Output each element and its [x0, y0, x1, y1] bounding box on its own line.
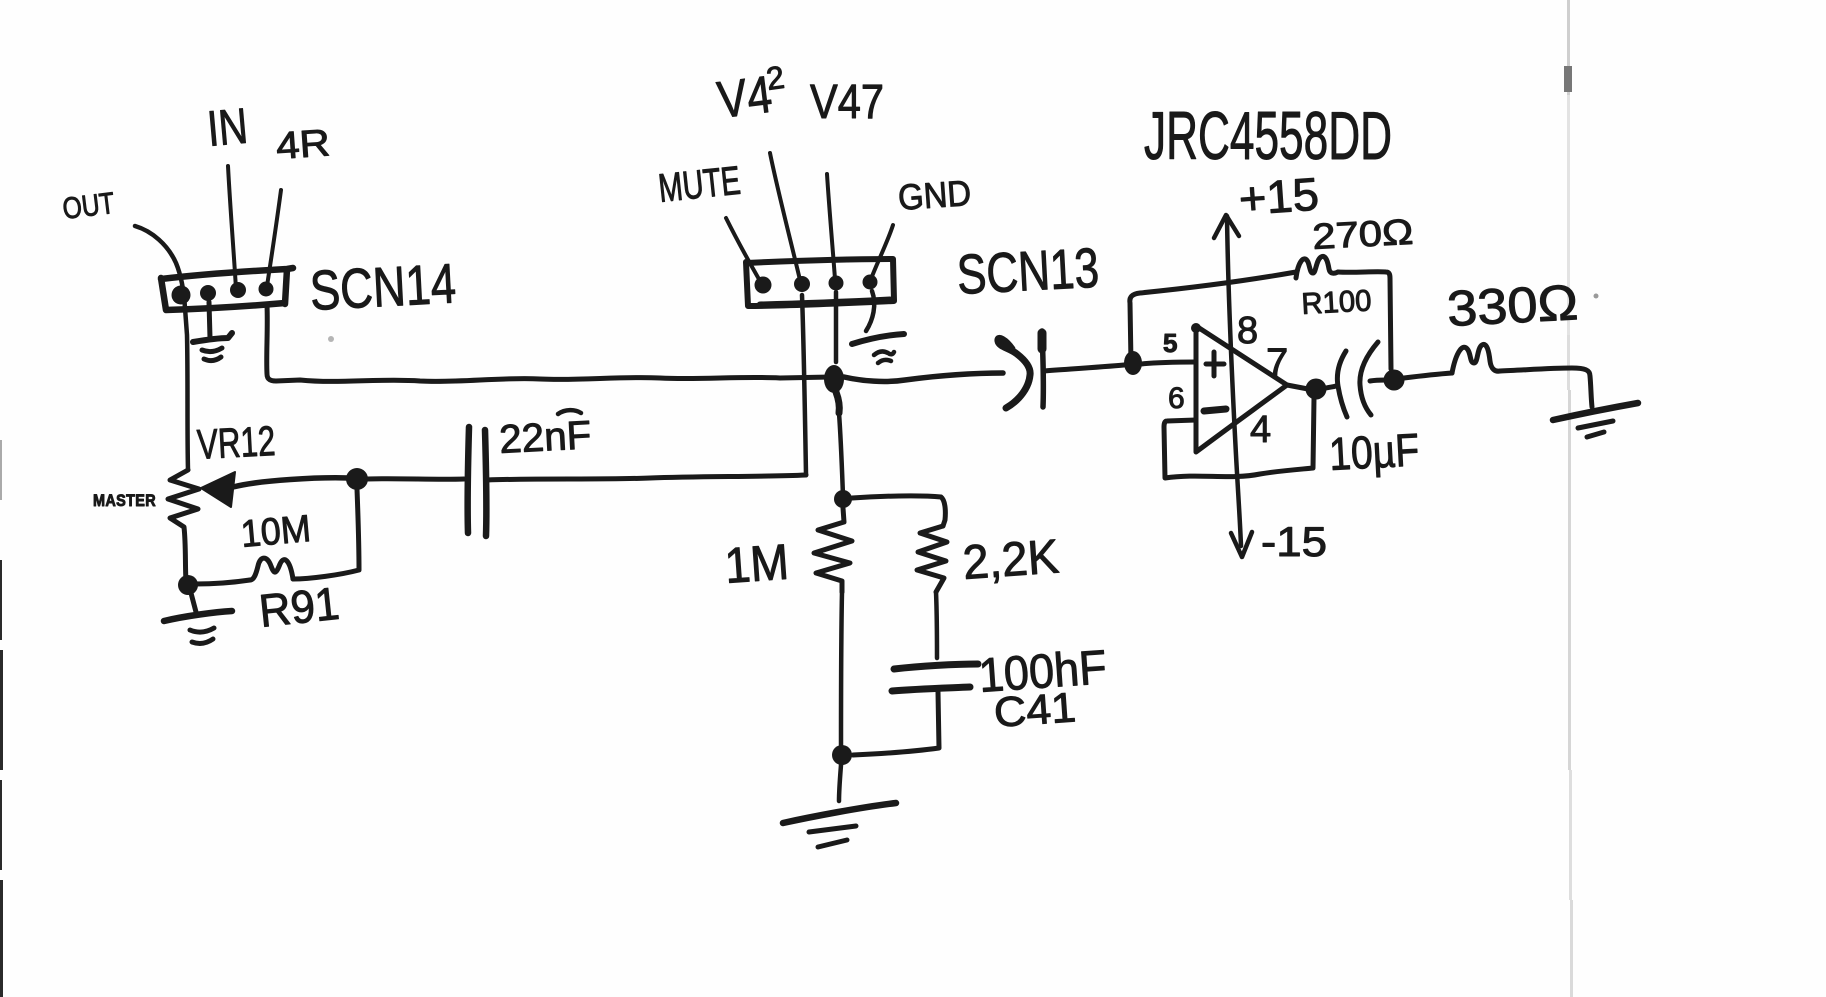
wire V47 lead	[827, 174, 835, 279]
wire main junction to coupling cap	[844, 373, 1003, 381]
ground under SCN14 pin 2	[193, 302, 232, 361]
svg-text:C41: C41	[992, 683, 1077, 736]
wire C41 down then left to node E	[853, 692, 939, 755]
connector SCN14 pin 3	[230, 282, 246, 298]
capacitor 22nF left plate	[468, 427, 469, 533]
op-amp input node junction dot	[1124, 351, 1142, 375]
connector SCN14 body	[161, 268, 293, 310]
svg-text:330Ω: 330Ω	[1446, 274, 1580, 337]
wire node A down to R91	[293, 489, 359, 579]
resistor R100 270ohm squiggle	[1296, 256, 1338, 278]
wire 10uF to node D	[1370, 380, 1386, 381]
junction blob on main wire	[824, 365, 844, 393]
wire node D to 330ohm	[1404, 373, 1452, 378]
ground under VR12	[164, 593, 232, 643]
wire C22 right plate to MUTE column	[487, 475, 806, 480]
ground bottom	[783, 803, 896, 847]
header (SCN13) body	[746, 259, 894, 306]
wire V42 lead	[770, 153, 800, 280]
capacitor C41 top plate	[894, 664, 978, 669]
svg-text:MUTE: MUTE	[656, 159, 742, 211]
feedback wire after R100 to right vertical down	[1338, 272, 1391, 369]
wire 4R lead	[267, 190, 281, 286]
op-amp minus sign	[1204, 409, 1226, 411]
scan artifact: dark left edge strip	[0, 440, 3, 997]
wire header pin3 down to junction	[834, 292, 839, 362]
svg-text:270Ω: 270Ω	[1311, 211, 1414, 257]
feedback wire: up from input node, right along top	[1130, 272, 1296, 363]
wire wiper to node A	[233, 478, 349, 487]
svg-text:2,2K: 2,2K	[961, 530, 1060, 590]
svg-text:5: 5	[1163, 328, 1177, 358]
wire R91 to node B	[195, 580, 250, 584]
capacitor 22nF right plate	[485, 430, 486, 536]
wire MUTE lead	[726, 218, 760, 281]
wire op-amp output to junction	[1287, 385, 1308, 389]
svg-text:6: 6	[1168, 382, 1185, 415]
svg-text:GND: GND	[897, 172, 973, 218]
power rail +15/-15 vertical through op-amp	[1227, 216, 1241, 546]
header pin 3	[829, 276, 844, 291]
node A junction dot	[346, 468, 368, 490]
ground at header GND pin	[852, 291, 904, 363]
header pin 2	[794, 276, 810, 292]
wire 2,2K down to C41	[936, 592, 937, 658]
wire node A to C22	[367, 476, 464, 482]
capacitor 10uF right plate	[1360, 342, 1378, 415]
wire GND lead	[871, 225, 893, 279]
svg-text:10µF: 10µF	[1328, 423, 1421, 480]
resistor 330ohm squiggle	[1452, 344, 1500, 373]
wire coupling cap to op-amp input node	[1043, 365, 1124, 371]
svg-text:R100: R100	[1301, 284, 1373, 321]
svg-text:V47: V47	[810, 76, 884, 129]
wire node E down to bottom ground	[839, 765, 841, 801]
svg-text:22nF: 22nF	[498, 413, 592, 462]
svg-text:SCN13: SCN13	[955, 236, 1100, 306]
coupling capacitor straight plate	[1042, 331, 1043, 407]
wire header pin2 down to C22 wire	[802, 295, 806, 474]
node D junction dot	[1384, 370, 1405, 391]
svg-text:JRC4558DD: JRC4558DD	[1144, 98, 1392, 174]
svg-text:SCN14: SCN14	[308, 251, 457, 322]
svg-text:1M: 1M	[723, 534, 791, 594]
ground right	[1553, 403, 1638, 437]
wire junction blob down to node C	[839, 413, 843, 496]
-15 arrowhead	[1231, 532, 1252, 557]
resistor 1M squiggle	[814, 508, 852, 592]
connector SCN14 pin 4	[259, 282, 274, 297]
coupling capacitor curved plate	[998, 338, 1030, 408]
capacitor C41 bottom plate	[892, 687, 970, 691]
header pin 4	[863, 275, 878, 290]
output junction dot	[1306, 379, 1327, 400]
scan speck near SCN14	[328, 336, 334, 342]
svg-text:OUT: OUT	[61, 187, 117, 226]
wire 330ohm to right ground	[1500, 368, 1592, 407]
svg-text:MASTER: MASTER	[93, 491, 156, 510]
node C junction dot (top of 1M)	[834, 490, 852, 508]
wire input node to op-amp pin5	[1141, 362, 1196, 364]
svg-text:VR12: VR12	[196, 417, 276, 468]
wire 1M down to node E	[841, 592, 842, 745]
capacitor 10uF left plate	[1337, 351, 1347, 417]
op-amp plus sign	[1206, 352, 1224, 376]
node E junction dot	[832, 745, 852, 765]
scan artifact: faint vertical fold line right side	[1564, 0, 1573, 997]
wire OUT lead into SCN14	[135, 226, 188, 470]
stray ink mark: handwritten F bar of 22nF	[558, 410, 581, 414]
svg-text:8: 8	[1237, 310, 1258, 352]
wire SCN14 pin4 down then right (main signal to header)	[267, 305, 831, 381]
connector SCN14 pin 2	[200, 285, 216, 301]
potentiometer VR12 wiper arrow	[201, 472, 235, 507]
connector SCN14 pin 1	[172, 286, 191, 305]
wire IN lead	[228, 166, 236, 289]
svg-text:+15: +15	[1237, 168, 1320, 225]
node B junction dot	[178, 575, 198, 595]
wire output junction to 10uF	[1326, 386, 1336, 388]
op-amp U1 triangle	[1196, 326, 1287, 452]
svg-text:IN: IN	[205, 98, 250, 157]
svg-text:4: 4	[1250, 409, 1271, 451]
resistor R91 squiggle	[250, 558, 293, 580]
resistor 2,2K squiggle	[917, 526, 947, 592]
scan speck right of 330ohm	[1594, 294, 1599, 299]
+15 arrowhead	[1214, 215, 1239, 238]
potentiometer VR12 zigzag	[168, 470, 199, 582]
wire node C right to 2,2K	[852, 496, 945, 526]
wire pin6 unity feedback loop	[1164, 398, 1314, 478]
svg-text:R91: R91	[257, 577, 342, 637]
svg-text:10M: 10M	[239, 508, 312, 556]
svg-text:7: 7	[1266, 341, 1288, 385]
svg-text:-15: -15	[1261, 518, 1327, 565]
header pin 1	[755, 277, 772, 294]
svg-text:4R: 4R	[275, 122, 332, 168]
